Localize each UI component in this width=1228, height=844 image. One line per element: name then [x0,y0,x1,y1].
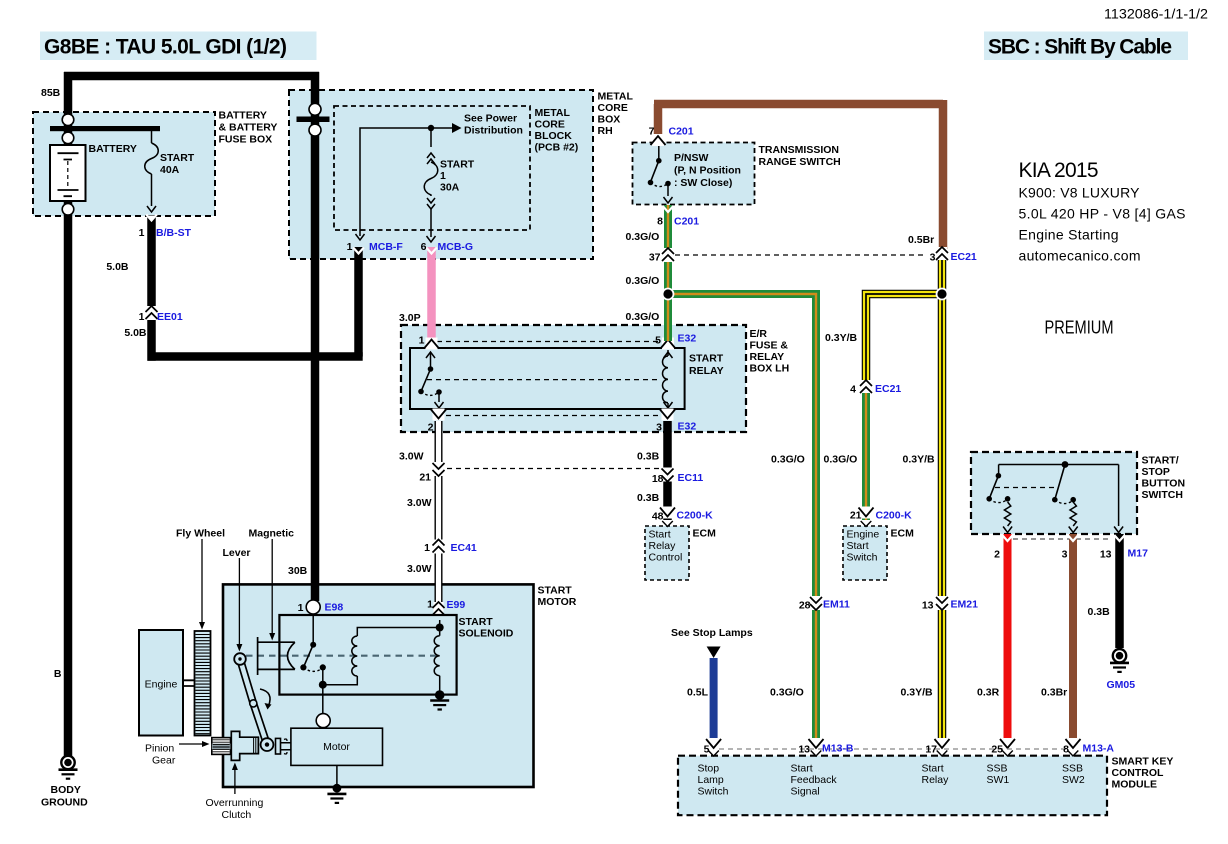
flywheel [195,631,211,736]
svg-text:0.3Y/B: 0.3Y/B [903,454,936,466]
svg-text:ECM: ECM [693,528,717,540]
wire 30B vertical [311,72,320,601]
svg-text:Fly Wheel: Fly Wheel [176,528,225,540]
SSB sw2 arrow [1069,527,1078,533]
start relay body [410,348,685,409]
svg-text:BOX LH: BOX LH [750,363,790,375]
svg-text:K900: V8 LUXURY: K900: V8 LUXURY [1019,185,1141,201]
relay switch contact left [418,389,424,395]
SSB sw2 contact right [1070,497,1076,503]
engine shaft [183,680,195,686]
relay switch out [438,392,440,402]
lever pivot top [234,653,246,665]
TRS out arrow [667,184,669,197]
svg-text:MOTOR: MOTOR [538,596,577,608]
svg-text:0.3Y/B: 0.3Y/B [901,687,934,699]
svg-text:EC11: EC11 [678,472,704,484]
svg-text:17: 17 [925,744,937,756]
wire 0.3Y/B main [938,260,947,745]
connector 21 [433,462,445,476]
svg-text:CORE: CORE [598,102,628,114]
SSB sw2 blade [1055,465,1065,500]
smart key control module box [678,756,1107,816]
SSB sw1 contact left [986,496,992,502]
svg-text:START: START [160,152,195,164]
svg-text:48: 48 [652,511,664,523]
svg-text:30A: 30A [440,182,460,194]
svg-text:3: 3 [1062,549,1068,561]
svg-text:85B: 85B [41,87,61,99]
wire battery to body ground [64,201,73,756]
svg-text:Start: Start [791,763,813,775]
wire M17 0.3B [1115,534,1124,648]
svg-text:B: B [54,668,62,680]
lever pivot mid [250,700,257,707]
svg-text:C200-K: C200-K [876,510,913,522]
svg-text:1: 1 [424,542,430,554]
svg-text:STOP: STOP [1142,466,1170,478]
svg-text:SBC : Shift By Cable: SBC : Shift By Cable [988,36,1172,59]
wire 0.3G/O trs to relay [664,205,672,341]
relay pin 5 connector [661,338,676,350]
svg-text:Clutch: Clutch [222,809,252,821]
battery symbol box [50,145,86,201]
wire 0.3G/O engine start switch [862,393,870,520]
svg-text:SMART KEY: SMART KEY [1112,756,1174,768]
svg-text:GROUND: GROUND [41,797,88,809]
svg-text:MCB-F: MCB-F [369,241,403,253]
svg-text:Motor: Motor [323,741,350,753]
solenoid to motor wire [322,685,324,714]
svg-text:1132086-1/1-1/2: 1132086-1/1-1/2 [1104,6,1208,22]
svg-text:0.3B: 0.3B [1088,606,1111,618]
mechanical dashed link [246,655,437,657]
svg-text:5.0B: 5.0B [124,327,147,339]
wire MCB-G pink [427,247,436,340]
svg-text:30B: 30B [288,565,308,577]
metal core box RH [289,90,593,259]
svg-text:3: 3 [656,422,662,434]
svg-text:START: START [440,159,475,171]
SSB sw2 arc [1055,500,1073,504]
svg-text:E32: E32 [678,421,697,433]
svg-text:1: 1 [419,335,425,347]
svg-text:5.0L 420 HP - V8 [4] GAS: 5.0L 420 HP - V8 [4] GAS [1019,206,1186,222]
SSB sw1 spring [1004,502,1010,526]
E/R fuse relay box LH [401,325,746,432]
battery connector circle bottom [62,204,74,216]
M13-B pin connector [809,738,824,750]
svg-text:3.0W: 3.0W [407,563,432,575]
svg-text:G8BE : TAU 5.0L GDI (1/2): G8BE : TAU 5.0L GDI (1/2) [44,36,287,59]
solenoid junction to coil [323,684,358,686]
wire 0.3G/O branch [668,294,816,745]
GM05 ground [1110,649,1129,672]
relay pin2 connector [431,409,446,421]
svg-text:EE01: EE01 [157,311,183,323]
connector C200-K 21 [859,507,874,519]
connector 21 row dashed [447,468,659,470]
svg-text:Engine: Engine [145,679,178,691]
pinion gear [212,738,231,755]
svg-text:(PCB #2): (PCB #2) [535,142,579,154]
svg-text:Start: Start [649,529,671,541]
fuse START 30A holder bottom [427,198,435,203]
svg-text:1: 1 [139,227,145,239]
pinion gear arrow [179,743,202,745]
svg-text:5: 5 [655,335,661,347]
svg-text:EM11: EM11 [823,599,850,611]
svg-text:MODULE: MODULE [1112,779,1158,791]
start motor box [223,584,534,787]
relay pin3 connector [660,409,675,421]
svg-text:E99: E99 [447,599,466,611]
svg-text:SSB: SSB [987,763,1008,775]
solenoid switch wire [312,614,314,642]
MCB-F pin notch [353,248,364,254]
svg-text:Lever: Lever [223,547,251,559]
svg-text:RELAY: RELAY [750,351,785,363]
wire 0.5Br brown [654,100,943,249]
connector EC11 [662,468,674,482]
connector EC21 3 [936,247,948,261]
see stop lamps arrow [707,647,721,659]
relay pin 1 connector [424,338,439,350]
relay switch contact top [428,366,434,372]
battery connector circle mid [62,132,74,144]
svg-text:21: 21 [419,472,431,484]
lever rotation arrow [260,689,270,706]
svg-text:Feedback: Feedback [791,774,838,786]
connector EM21 [936,596,948,610]
connector E99 [433,602,445,616]
SSB M17 dashed row [1013,538,1112,540]
svg-text:SW1: SW1 [987,774,1010,786]
brown pin notch [1068,535,1079,541]
svg-text:BODY: BODY [51,784,81,796]
PCB feed wire [360,128,431,236]
battery plates [58,153,79,196]
EE01 connector [146,306,158,320]
svg-text:Switch: Switch [847,552,878,564]
start/stop button switch box [971,452,1137,534]
svg-text:0.3G/O: 0.3G/O [626,311,660,323]
svg-text:Start: Start [922,763,944,775]
wire 0.3Br brown [1069,534,1077,745]
svg-text:FUSE BOX: FUSE BOX [219,134,273,146]
svg-text:P/NSW: P/NSW [674,152,709,164]
pin8 connector [1066,738,1081,750]
SSB sw1 arc [989,499,1007,503]
svg-text:START: START [459,616,494,628]
svg-text:See Power: See Power [464,113,517,125]
svg-text:18: 18 [652,473,664,485]
SSB pin13 drop [1118,465,1120,527]
relay coil [667,350,669,356]
svg-text:0.3B: 0.3B [637,451,660,463]
svg-text:See Stop Lamps: See Stop Lamps [671,627,753,639]
pin25 connector [1000,738,1015,750]
SSB sw1 arrow [1003,527,1012,533]
svg-text:0.3B: 0.3B [637,492,660,504]
solenoid contact left [300,664,306,670]
ECM box engine start switch [843,526,887,580]
svg-text:BATTERY: BATTERY [89,143,137,155]
svg-text:MCB-G: MCB-G [438,241,474,253]
svg-text:automecanico.com: automecanico.com [1019,248,1141,264]
yellow junction [936,288,949,301]
svg-text:Relay: Relay [922,774,950,786]
relay switch arc [421,392,439,396]
svg-text:FUSE &: FUSE & [750,340,789,352]
svg-text:M13-A: M13-A [1083,743,1115,755]
overrunning clutch arrow [234,768,236,794]
relay connector dashed row bottom [446,415,660,417]
solenoid contact right [320,664,326,670]
svg-text:Start: Start [847,540,869,552]
red pin notch [1002,535,1013,541]
wire battery vertical upper [64,72,73,145]
svg-text:RH: RH [598,125,613,137]
svg-text:3.0P: 3.0P [399,312,421,324]
SSB sw1 contact right [1005,496,1011,502]
see power distribution arrow [431,127,452,129]
svg-text:METAL: METAL [535,107,571,119]
TRS blade [651,161,659,182]
clutch coupler [276,738,281,754]
svg-text:0.3G/O: 0.3G/O [626,231,660,243]
wire 0.3R red [1004,534,1012,745]
engine box [139,630,183,736]
svg-text:Lamp: Lamp [698,774,724,786]
svg-text:3.0W: 3.0W [407,497,432,509]
svg-text:Switch: Switch [698,786,729,798]
svg-text:3: 3 [930,252,936,264]
svg-text:BATTERY: BATTERY [219,110,267,122]
svg-text:25: 25 [991,744,1003,756]
svg-text:Stop: Stop [698,763,720,775]
M17 pin notch [1114,535,1125,541]
E98 connector circle [306,600,320,614]
PCB node [428,125,434,131]
svg-text:B/B-ST: B/B-ST [156,227,192,239]
TRS switch wire [658,146,660,158]
svg-text:Engine: Engine [847,529,880,541]
relay switch contact right [436,389,442,395]
svg-text:0.3G/O: 0.3G/O [771,454,805,466]
overrunning clutch body [231,731,258,760]
svg-text:5: 5 [704,744,710,756]
SSB switch1 drop [998,465,1000,474]
solenoid hold coil [439,620,441,628]
fuse START 30A holder top [430,131,432,147]
svg-text:1: 1 [139,311,145,323]
svg-text:13: 13 [922,600,934,612]
svg-text:4: 4 [850,384,856,396]
svg-text:SOLENOID: SOLENOID [459,628,514,640]
relay internal dashed link [427,379,661,381]
C200-K 48 pin arrow [662,521,673,527]
solenoid out wire [322,667,324,684]
svg-text:EM21: EM21 [951,599,979,611]
svg-text:Relay: Relay [649,540,677,552]
fly wheel arrow [201,539,203,624]
metal core circle bottom [309,124,321,136]
connector EC41 [433,540,445,554]
connector C201 8 notch [663,206,674,212]
svg-text:M13-B: M13-B [822,743,854,755]
motor terminal to motor [322,728,324,729]
solenoid junction [319,681,327,689]
solenoid blade [303,645,313,668]
svg-text:Pinion: Pinion [145,743,174,755]
MCB-G pin notch [426,248,437,254]
wire 0.5L blue [710,658,718,745]
svg-text:1: 1 [298,602,304,614]
connector C200-K 48 [660,507,675,519]
magnetic arrow [271,539,273,635]
svg-text:40A: 40A [160,164,180,176]
svg-text:KIA 2015: KIA 2015 [1019,159,1099,182]
battery & battery fuse box [33,112,215,216]
svg-text:1: 1 [427,599,433,611]
start solenoid box [279,615,456,695]
svg-text:(P, N Position: (P, N Position [674,165,741,177]
wire B/B-ST vertical [147,215,156,361]
SSB top wire [999,464,1119,466]
ECM box start relay control [645,526,689,580]
smart key dashed row [719,748,1067,750]
SSB internal dashed [995,487,1059,489]
svg-text:SSB: SSB [1062,763,1083,775]
svg-text:Magnetic: Magnetic [249,528,295,540]
B/B-ST pin notch [147,216,157,222]
svg-text:SWITCH: SWITCH [1142,489,1183,501]
wire MCB-F vertical [354,247,363,357]
svg-text:13: 13 [1100,549,1112,561]
wire 0.3B relay to ECM [663,421,672,520]
svg-text:C201: C201 [674,216,699,228]
solenoid ground [435,690,445,700]
wire 3.0W relay to solenoid [435,421,443,615]
overrunning clutch stripes [254,738,258,753]
green junction [662,288,675,301]
svg-text:EC41: EC41 [451,542,477,554]
svg-text:START: START [689,353,724,365]
fuse START 40A [145,131,159,206]
lever arrow [238,558,240,646]
svg-text:BLOCK: BLOCK [535,130,573,142]
svg-text:Control: Control [649,552,683,564]
solenoid arc [303,667,322,671]
svg-text:RANGE SWITCH: RANGE SWITCH [759,156,841,168]
svg-text:Engine Starting: Engine Starting [1019,227,1119,243]
svg-text:E98: E98 [325,602,344,614]
svg-text:Distribution: Distribution [464,125,523,137]
connector EM11 [810,596,822,610]
svg-text:0.5L: 0.5L [687,687,709,699]
svg-text:2: 2 [428,422,434,434]
wire battery top bus horizontal [64,72,319,81]
svg-text:C201: C201 [669,126,694,138]
wire EE01 horizontal [148,352,363,361]
svg-text:E32: E32 [678,333,697,345]
svg-text:6: 6 [421,241,427,253]
svg-text:0.5Br: 0.5Br [908,234,934,246]
svg-text:7: 7 [649,126,655,138]
TRS contact right [665,181,671,187]
TRS contact left [648,180,654,186]
svg-text:M17: M17 [1128,548,1149,560]
svg-text:CONTROL: CONTROL [1112,767,1164,779]
svg-text:Overrunning: Overrunning [206,797,264,809]
svg-text:Signal: Signal [791,786,820,798]
svg-text:START/: START/ [1142,455,1179,467]
svg-text:13: 13 [798,744,810,756]
SSB sw2 contact left [1052,497,1058,503]
metal core circle top [309,103,321,115]
motor terminal circle [316,714,330,728]
svg-text:0.3G/O: 0.3G/O [626,275,660,287]
metal core block PCB box [334,106,530,230]
svg-text:0.3G/O: 0.3G/O [770,687,804,699]
TRS arc [651,183,669,187]
C200-K 21 pin arrow [861,521,872,527]
wire 0.3Y/B branch [866,294,937,381]
svg-text:37: 37 [649,252,661,264]
svg-text:21: 21 [850,510,862,522]
title G8BE highlight [40,32,317,61]
svg-text:TRANSMISSION: TRANSMISSION [759,144,840,156]
motor ground wire [336,765,338,784]
relay switch blade [421,369,431,392]
svg-text:3.0W: 3.0W [399,451,424,463]
relay switch arrow up [430,353,432,369]
svg-text:GM05: GM05 [1107,679,1136,691]
svg-text:8: 8 [657,216,663,228]
svg-text:ECM: ECM [891,528,915,540]
svg-text:2: 2 [994,549,1000,561]
title SBC highlight [984,32,1188,61]
pin5 connector [706,738,721,750]
SSB sw1 contact top [996,473,1002,479]
lever pivot bottom [261,738,274,751]
motor ground [333,784,342,793]
svg-text:BUTTON: BUTTON [1142,478,1186,490]
svg-text:5.0B: 5.0B [106,261,129,273]
fuse 40A arrow [147,206,156,212]
PCB feed arrow [356,234,365,240]
connector EC21 4 [860,380,872,394]
svg-text:8: 8 [1063,744,1069,756]
TRS contact top [656,158,662,164]
svg-text:BOX: BOX [598,114,621,126]
body ground [59,756,78,779]
transmission range switch box [633,143,755,205]
solenoid contact top [310,642,316,648]
svg-text:CORE: CORE [535,119,565,131]
svg-text:EC21: EC21 [875,383,901,395]
svg-text:EC21: EC21 [951,251,977,263]
lever arm [240,659,267,745]
magnet symbol [258,637,295,675]
svg-text:& BATTERY: & BATTERY [219,122,278,134]
connector C201 7 [651,134,666,146]
SSB sw2 spring [1070,502,1076,526]
svg-text:E/R: E/R [750,328,768,340]
svg-text:Gear: Gear [152,755,176,767]
battery bus bar [50,126,160,131]
